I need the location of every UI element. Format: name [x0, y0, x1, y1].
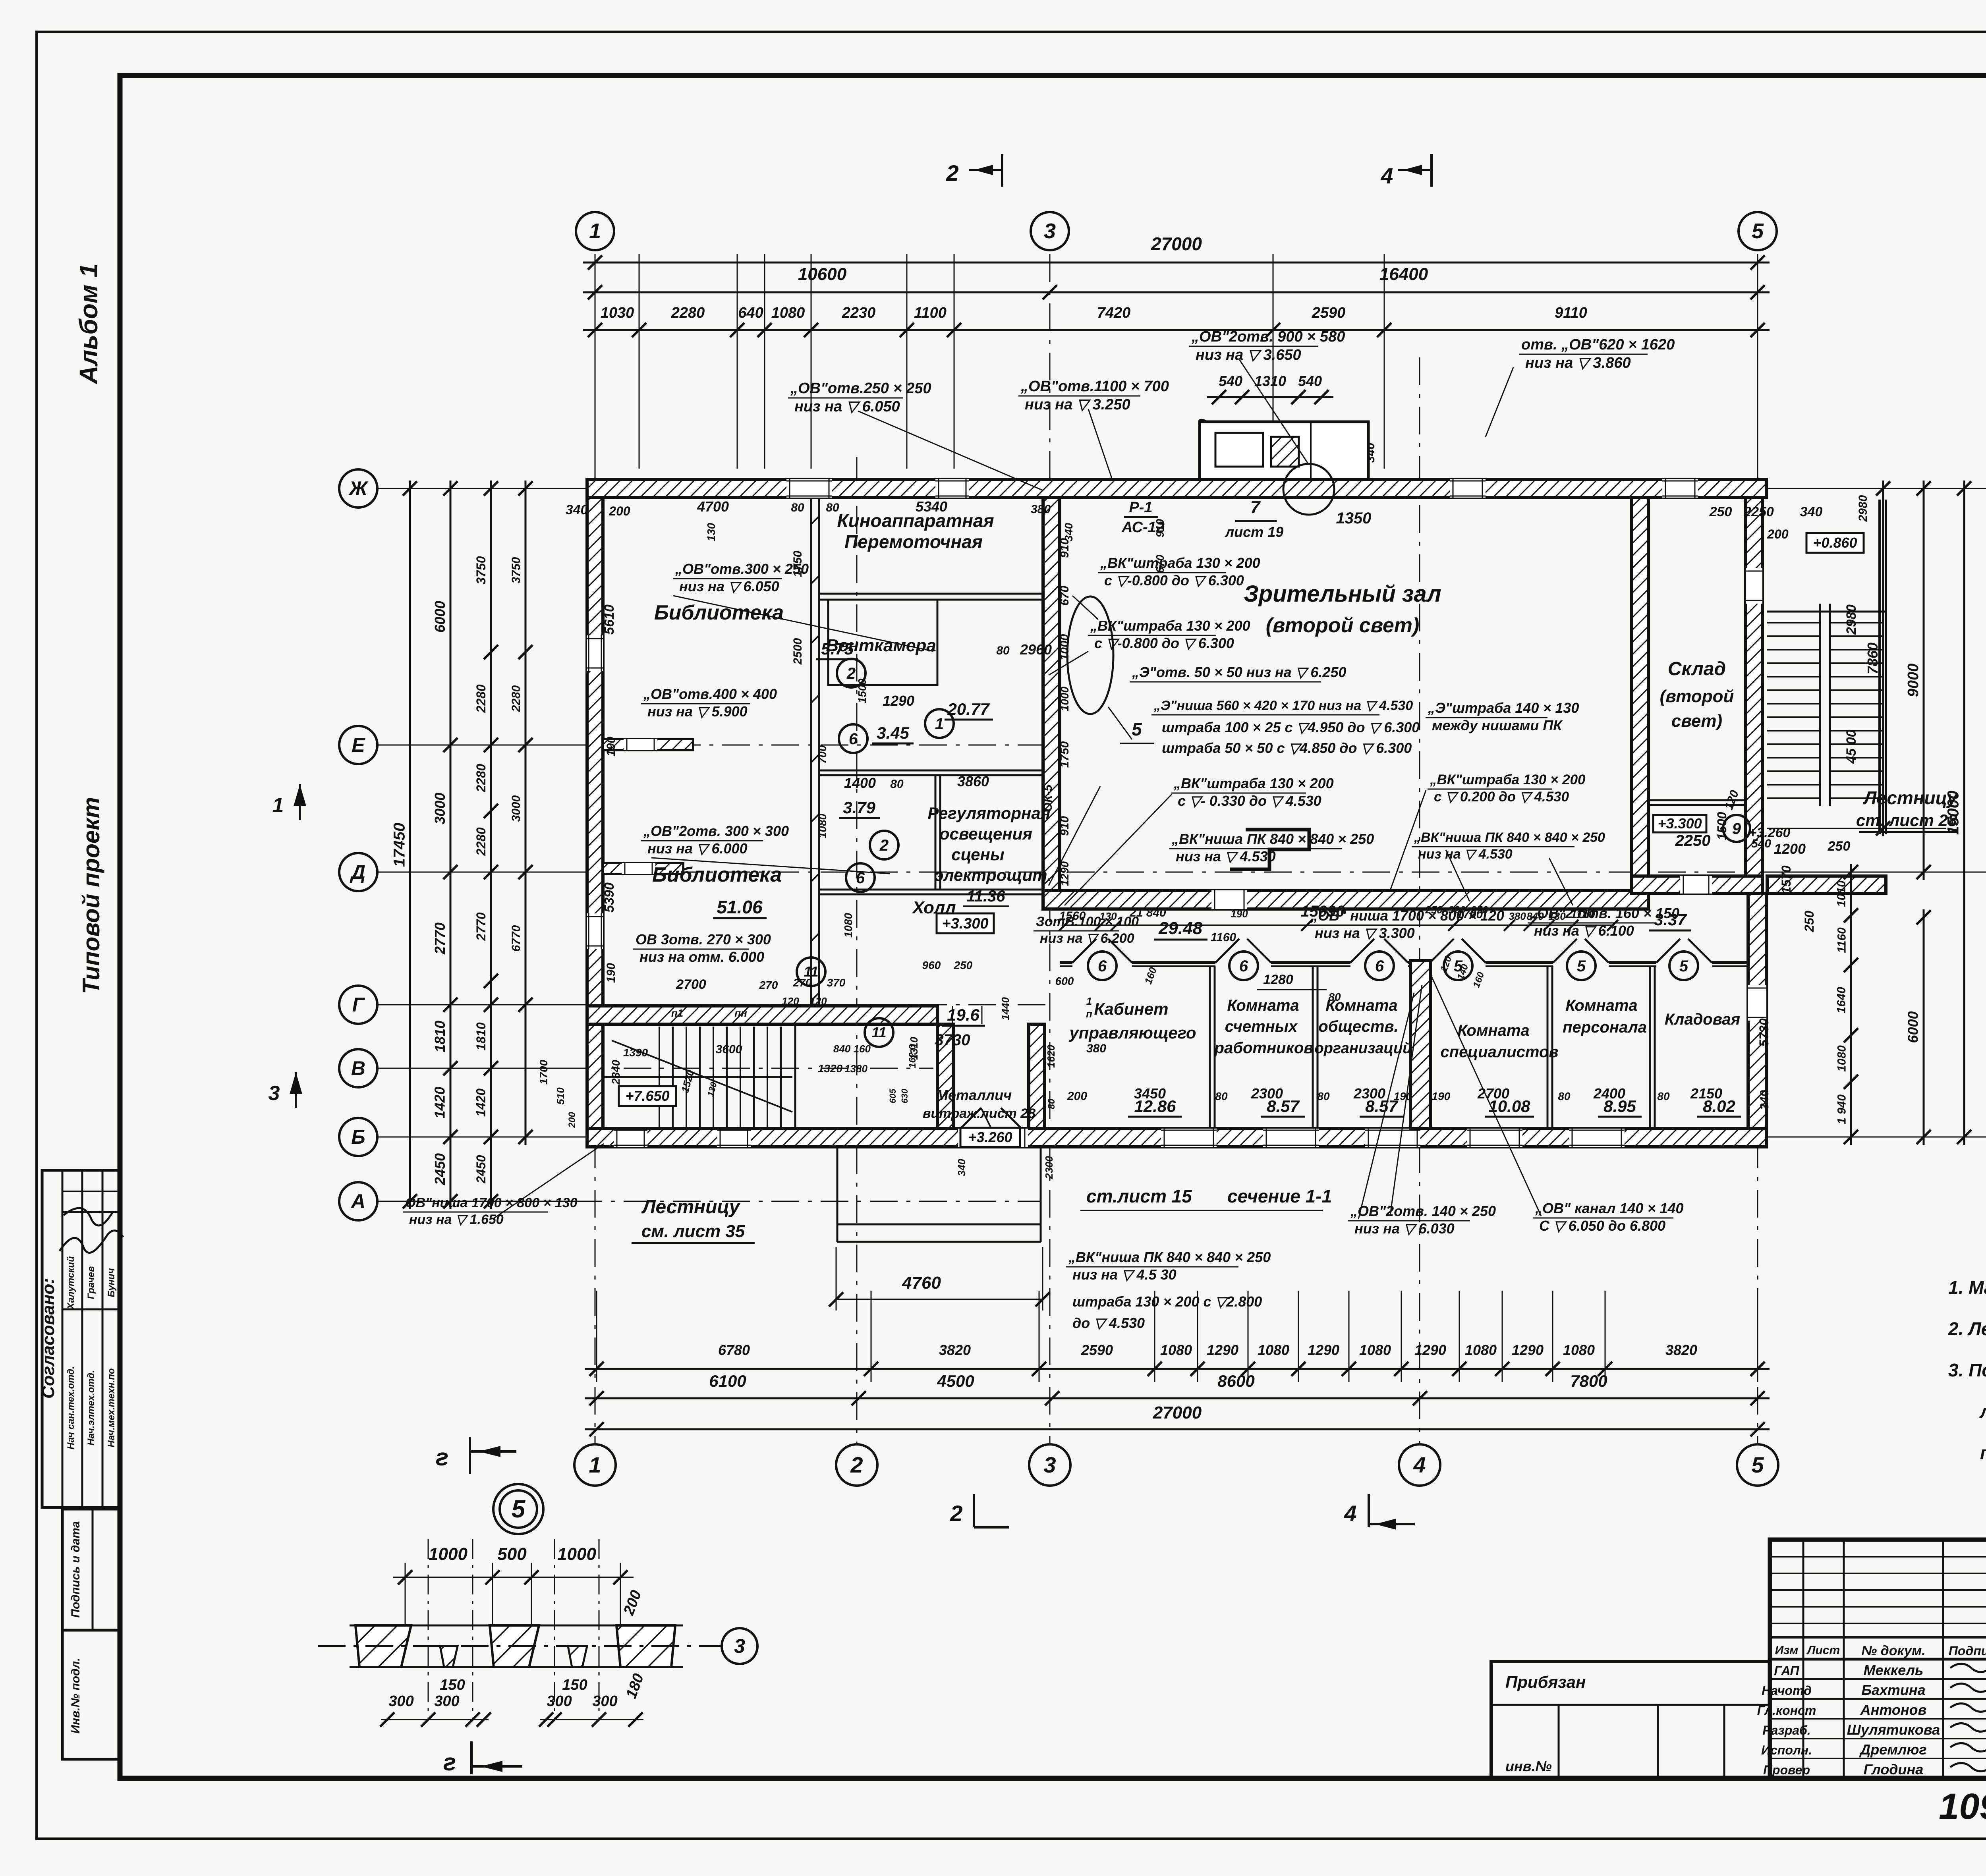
right dim col 9000	[1923, 481, 1925, 880]
svg-text:20.77: 20.77	[947, 700, 990, 718]
svg-text:5.75: 5.75	[821, 639, 854, 658]
svg-text:45 00: 45 00	[1844, 730, 1859, 764]
right exterior wall (axis 5) upper	[1746, 498, 1762, 886]
svg-text:3820: 3820	[1665, 1342, 1697, 1358]
svg-text:2980: 2980	[1857, 495, 1870, 522]
svg-text:1080: 1080	[816, 813, 829, 838]
detail pier 2	[490, 1625, 539, 1667]
svg-text:Лестницу: Лестницу	[1863, 787, 1958, 808]
vestibule west wall	[937, 1024, 953, 1129]
svg-text:1750: 1750	[791, 550, 804, 577]
svg-text:7: 7	[1250, 498, 1261, 517]
svg-text:340: 340	[1758, 1090, 1771, 1110]
svg-text:2980: 2980	[1844, 604, 1859, 635]
svg-text:300: 300	[388, 1693, 413, 1710]
svg-text:540: 540	[1751, 837, 1771, 850]
svg-text:Лист: Лист	[1806, 1644, 1840, 1657]
svg-text:1810: 1810	[474, 1022, 488, 1050]
svg-text:29.48: 29.48	[1158, 919, 1203, 938]
svg-text:3750: 3750	[510, 557, 523, 583]
svg-text:Бунич: Бунич	[106, 1268, 117, 1297]
svg-text:190: 190	[1231, 908, 1248, 920]
detail axis dashed verticals	[428, 1539, 429, 1720]
svg-text:Дремлюг: Дремлюг	[1859, 1741, 1926, 1758]
svg-text:270: 270	[759, 979, 778, 991]
detail wall strip	[350, 1625, 683, 1627]
svg-text:Подпись и дата: Подпись и дата	[69, 1521, 82, 1617]
svg-text:+0.860: +0.860	[1813, 535, 1857, 551]
svg-text:Комната: Комната	[1227, 997, 1299, 1014]
svg-text:электрощит.: электрощит.	[934, 866, 1051, 884]
svg-text:„ОВ"отв.250 × 250: „ОВ"отв.250 × 250	[790, 380, 931, 397]
svg-text:Инв.№ подл.: Инв.№ подл.	[69, 1658, 82, 1733]
svg-text:80: 80	[1657, 1090, 1670, 1102]
svg-text:Комната: Комната	[1565, 997, 1637, 1014]
svg-text:1390: 1390	[623, 1046, 648, 1059]
projection room south wall	[819, 593, 1043, 595]
svg-text:организаций: организаций	[1315, 1040, 1412, 1057]
svg-text:5: 5	[1679, 957, 1688, 975]
svg-text:3820: 3820	[939, 1342, 971, 1358]
svg-text:Кабинет: Кабинет	[1094, 1000, 1169, 1018]
svg-text:персонала: персонала	[1563, 1019, 1647, 1036]
svg-text:низ на отм. 6.000: низ на отм. 6.000	[639, 949, 764, 965]
svg-text:+3.260: +3.260	[968, 1129, 1012, 1145]
bottom dim row 27000	[585, 1428, 1770, 1430]
top grid circles 1 3 5	[576, 212, 614, 250]
svg-text:2250: 2250	[1743, 504, 1774, 519]
svg-text:низ на ▽ 5.900: низ на ▽ 5.900	[647, 703, 748, 720]
svg-text:1640: 1640	[1835, 987, 1848, 1013]
svg-text:штраба 50 × 50 с ▽4.850 до ▽ 6: штраба 50 × 50 с ▽4.850 до ▽ 6.300	[1162, 740, 1412, 756]
svg-text:2450: 2450	[432, 1153, 448, 1185]
svg-text:1160: 1160	[1835, 927, 1849, 953]
svg-text:500: 500	[497, 1544, 527, 1564]
svg-text:2300: 2300	[1353, 1085, 1385, 1102]
top exterior wall (axis Ж)	[587, 479, 1766, 498]
svg-text:1810: 1810	[432, 1021, 448, 1052]
vent chamber room	[828, 600, 937, 685]
svg-text:250: 250	[1828, 839, 1851, 854]
svg-text:Типовой проект: Типовой проект	[78, 797, 104, 994]
hall lobby wall	[819, 889, 1043, 891]
svg-text:4500: 4500	[937, 1372, 974, 1390]
svg-text:Антонов: Антонов	[1860, 1702, 1927, 1718]
svg-text:8600: 8600	[1217, 1372, 1254, 1390]
svg-text:1080: 1080	[1359, 1342, 1391, 1358]
svg-text:витраж.лист 28: витраж.лист 28	[923, 1106, 1036, 1121]
svg-text:+3.300: +3.300	[1658, 815, 1702, 832]
svg-text:6000: 6000	[432, 601, 448, 633]
svg-text:2770: 2770	[474, 912, 488, 941]
svg-text:162 0: 162 0	[907, 1044, 918, 1068]
svg-text:низ на ▽ 4.5 30: низ на ▽ 4.5 30	[1072, 1266, 1177, 1283]
svg-text:Нач.мех.техн.по: Нач.мех.техн.по	[106, 1368, 117, 1447]
svg-text:5: 5	[1752, 219, 1764, 243]
svg-text:80: 80	[996, 644, 1010, 657]
svg-text:4: 4	[1380, 163, 1393, 188]
svg-text:с ▽-0.800 до ▽ 6.300: с ▽-0.800 до ▽ 6.300	[1094, 635, 1234, 651]
left dim col wall offsets	[525, 481, 527, 1145]
corridor south wall (office fronts)	[1060, 961, 1072, 964]
svg-text:1. Маркировку и конструкцию по: 1. Маркировку и конструкцию полов см лис…	[1948, 1277, 1986, 1298]
svg-text:Нач сан.тех.отд.: Нач сан.тех.отд.	[66, 1366, 76, 1449]
vent shaft dims 540 1310 540	[1207, 396, 1333, 398]
svg-text:Металлич: Металлич	[936, 1087, 1012, 1103]
svg-text:1500: 1500	[1715, 812, 1729, 840]
svg-text:120: 120	[809, 995, 827, 1007]
svg-text:1080: 1080	[1258, 1342, 1289, 1358]
svg-text:1: 1	[272, 794, 284, 817]
plan section mark 1 left	[299, 784, 301, 820]
svg-text:1160: 1160	[1211, 931, 1236, 944]
svg-text:190: 190	[605, 737, 618, 757]
svg-text:340: 340	[566, 502, 588, 517]
svg-text:2590: 2590	[1081, 1342, 1113, 1358]
svg-text:штраба 100 × 25 с ▽4.950 до ▽: штраба 100 × 25 с ▽4.950 до ▽ 6.300	[1162, 719, 1420, 735]
svg-text:200: 200	[567, 1112, 578, 1128]
svg-text:605: 605	[888, 1089, 898, 1103]
svg-text:6: 6	[856, 869, 865, 887]
svg-text:150: 150	[562, 1677, 587, 1693]
svg-text:низ на ▽ 6.200: низ на ▽ 6.200	[1040, 931, 1134, 946]
svg-text:600: 600	[1055, 975, 1074, 987]
svg-text:Склад: Склад	[1668, 658, 1726, 679]
svg-text:работников: работников	[1214, 1039, 1314, 1057]
svg-text:2280: 2280	[474, 684, 488, 713]
svg-text:910: 910	[1058, 538, 1071, 558]
bottom dim row small	[585, 1368, 1770, 1370]
svg-text:штраба 130 × 200 с ▽2.800: штраба 130 × 200 с ▽2.800	[1072, 1293, 1262, 1310]
office door circles	[1088, 952, 1117, 980]
svg-text:120: 120	[782, 995, 799, 1007]
svg-text:340: 340	[1800, 504, 1823, 519]
svg-text:низ на ▽ 3.250: низ на ▽ 3.250	[1025, 396, 1130, 413]
svg-text:2280: 2280	[474, 827, 488, 856]
svg-text:80: 80	[1558, 1090, 1571, 1102]
stair bay bottom wall	[1767, 876, 1886, 894]
svg-text:низ на ▽ 1.650: низ на ▽ 1.650	[409, 1212, 504, 1227]
vent shaft box on top wall	[1200, 422, 1368, 479]
svg-text:ст.лист 15: ст.лист 15	[1086, 1186, 1192, 1206]
detail small pier a	[440, 1646, 458, 1667]
storeroom south wall band	[1632, 876, 1762, 894]
svg-text:630: 630	[900, 1089, 910, 1103]
svg-text:Грачев: Грачев	[86, 1266, 97, 1299]
svg-text:2300: 2300	[1251, 1085, 1283, 1102]
svg-text:1320: 1320	[818, 1062, 843, 1075]
right dim col 7860	[1882, 481, 1884, 836]
svg-text:Глодина: Глодина	[1864, 1761, 1924, 1778]
svg-text:В: В	[351, 1057, 365, 1079]
office centre thick wall	[1410, 961, 1431, 1129]
svg-text:300: 300	[547, 1693, 572, 1710]
svg-text:1290: 1290	[1308, 1342, 1339, 1358]
svg-text:2250: 2250	[1675, 832, 1711, 849]
svg-text:2230: 2230	[842, 305, 876, 321]
detail bubble 7 on vent	[1283, 464, 1334, 515]
svg-text:17450: 17450	[391, 823, 408, 867]
svg-text:низ на ▽ 3.300: низ на ▽ 3.300	[1315, 925, 1415, 941]
svg-text:4: 4	[1344, 1501, 1356, 1526]
svg-text:27000: 27000	[1151, 234, 1202, 254]
svg-text:Изм: Изм	[1775, 1644, 1799, 1657]
svg-text:г: г	[436, 1444, 448, 1471]
svg-text:1200: 1200	[1774, 841, 1806, 857]
svg-text:Нач.элтех.отд.: Нач.элтех.отд.	[86, 1370, 97, 1446]
svg-text:3000: 3000	[510, 795, 523, 822]
hall south wall	[1043, 890, 1648, 909]
svg-text:2: 2	[850, 1452, 863, 1477]
svg-text:380: 380	[1031, 503, 1051, 516]
left exterior wall (axis 1)	[587, 498, 603, 1129]
svg-text:С ▽ 6.050 до 6.800: С ▽ 6.050 до 6.800	[1539, 1218, 1665, 1234]
svg-text:250: 250	[954, 959, 973, 971]
svg-text:540: 540	[1219, 373, 1242, 389]
svg-text:п1: п1	[671, 1007, 683, 1019]
door circles middle	[837, 659, 865, 687]
svg-text:320: 320	[1448, 904, 1466, 916]
svg-text:16400: 16400	[1379, 264, 1428, 284]
svg-text:80: 80	[1328, 991, 1341, 1003]
svg-text:2700: 2700	[1477, 1085, 1509, 1102]
svg-text:сцены: сцены	[951, 845, 1005, 864]
detail axis circle 3	[722, 1628, 757, 1664]
svg-text:200: 200	[1767, 527, 1789, 541]
svg-text:„Э"отв. 50 × 50 низ на ▽ 6.250: „Э"отв. 50 × 50 низ на ▽ 6.250	[1132, 664, 1346, 680]
svg-text:управляющего: управляющего	[1068, 1023, 1196, 1042]
svg-text:670: 670	[1154, 554, 1166, 573]
right exterior wall (axis 5) lower	[1748, 894, 1766, 1129]
svg-text:7860: 7860	[1864, 643, 1881, 674]
svg-text:9000: 9000	[1905, 664, 1922, 697]
svg-text:4: 4	[1413, 1452, 1426, 1477]
svg-text:Р-1: Р-1	[1129, 499, 1152, 516]
svg-text:2770: 2770	[432, 923, 448, 955]
svg-text:670: 670	[1058, 586, 1071, 606]
svg-text:1290: 1290	[883, 693, 914, 709]
vestibule east wall	[1029, 1024, 1045, 1129]
svg-text:6000: 6000	[1905, 1011, 1921, 1043]
svg-text:с ▽ 0.200 до ▽ 4.530: с ▽ 0.200 до ▽ 4.530	[1434, 789, 1569, 805]
entrance door leaves	[957, 1108, 981, 1132]
svg-text:200: 200	[609, 504, 630, 518]
svg-text:с ▽- 0.330 до ▽ 4.530: с ▽- 0.330 до ▽ 4.530	[1178, 793, 1321, 809]
control room walls	[819, 770, 1043, 772]
svg-text:5: 5	[1132, 719, 1142, 739]
svg-text:специалистов: специалистов	[1440, 1043, 1558, 1061]
svg-text:51.06: 51.06	[717, 897, 763, 917]
svg-text:„ВК"штраба 130 × 200: „ВК"штраба 130 × 200	[1173, 775, 1334, 791]
svg-text:250: 250	[1425, 904, 1443, 916]
svg-text:(второй свет): (второй свет)	[1266, 614, 1420, 637]
entrance gap in bottom wall	[958, 1129, 1028, 1147]
svg-text:Библиотека: Библиотека	[652, 863, 782, 886]
svg-text:130: 130	[1548, 910, 1566, 922]
detail pier 1	[355, 1625, 411, 1667]
svg-text:5: 5	[1577, 957, 1586, 975]
svg-text:1000: 1000	[1059, 686, 1071, 711]
svg-text:250: 250	[1709, 504, 1732, 519]
detail pier 3	[616, 1625, 675, 1667]
svg-text:6: 6	[1239, 957, 1248, 975]
svg-text:1080: 1080	[1160, 1342, 1192, 1358]
detail bubble 5 (double circle)	[493, 1484, 543, 1534]
title block signature grid	[1802, 1540, 1804, 1778]
svg-text:15000: 15000	[1945, 791, 1962, 835]
bottom dim row majors	[585, 1397, 1770, 1399]
svg-text:130: 130	[1099, 910, 1117, 922]
svg-text:Бахтина: Бахтина	[1861, 1682, 1925, 1698]
svg-text:„ОВ"отв.400 × 400: „ОВ"отв.400 × 400	[643, 686, 777, 702]
sidebar box Подпись и дата	[62, 1509, 120, 1630]
svg-text:4760: 4760	[902, 1273, 941, 1293]
svg-text:2280: 2280	[671, 305, 705, 321]
svg-text:2700: 2700	[676, 977, 706, 992]
svg-text:„ОВ"2отв. 300 × 300: „ОВ"2отв. 300 × 300	[643, 823, 789, 839]
svg-text:2400: 2400	[1593, 1085, 1625, 1102]
right dim col minors	[1850, 864, 1852, 1145]
svg-text:700: 700	[816, 745, 829, 764]
svg-text:1420: 1420	[432, 1087, 448, 1118]
svg-text:840 160: 840 160	[833, 1043, 871, 1055]
svg-text:1 940: 1 940	[1835, 1094, 1849, 1124]
svg-text:3.45: 3.45	[877, 724, 909, 742]
svg-text:380: 380	[1086, 1042, 1106, 1055]
right extension lines	[1772, 488, 1986, 489]
svg-text:6: 6	[1375, 957, 1384, 975]
svg-text:1000: 1000	[1058, 634, 1071, 660]
svg-text:2. Лестницы см. лист 28,35: 2. Лестницы см. лист 28,35	[1948, 1318, 1986, 1339]
svg-text:1700: 1700	[537, 1060, 550, 1085]
svg-text:1: 1	[589, 219, 601, 243]
svg-text:3000: 3000	[432, 793, 448, 824]
svg-text:510: 510	[554, 1087, 566, 1105]
library partition stub at axis Д	[603, 863, 683, 874]
svg-text:370: 370	[827, 977, 846, 989]
top dimension row 10600 16400	[583, 291, 1770, 293]
svg-text:1560: 1560	[1059, 909, 1086, 923]
left grid circles Ж Е Д Г В Б А	[339, 469, 377, 508]
svg-text:5: 5	[512, 1496, 526, 1523]
svg-text:1: 1	[589, 1452, 601, 1477]
svg-text:1099-01: 1099-01	[1939, 1786, 1986, 1827]
svg-text:1440: 1440	[999, 997, 1011, 1020]
svg-text:сечение 1-1: сечение 1-1	[1227, 1186, 1332, 1206]
svg-text:3. Под окнами в библиотеке, ко: 3. Под окнами в библиотеке, коридоре и н…	[1948, 1360, 1986, 1380]
detail centerline	[318, 1645, 721, 1647]
svg-text:5730: 5730	[1757, 1018, 1771, 1046]
svg-text:лист 19: лист 19	[1225, 524, 1283, 540]
svg-text:приборов(ст.сеч. а-а) лист ли: приборов(ст.сеч. а-а) лист лист 9	[1980, 1442, 1986, 1463]
svg-text:80: 80	[1046, 1098, 1057, 1109]
svg-text:Халутский: Халутский	[66, 1256, 76, 1310]
svg-text:960: 960	[922, 959, 941, 971]
svg-text:Прибязан: Прибязан	[1505, 1673, 1586, 1691]
svg-text:1620: 1620	[1045, 1045, 1057, 1068]
svg-text:„ВК"штраба 130 × 200: „ВК"штраба 130 × 200	[1100, 555, 1260, 571]
svg-text:низ на ▽ 4.530: низ на ▽ 4.530	[1418, 847, 1513, 862]
top dimension row 27000	[583, 262, 1770, 264]
svg-text:Библиотека: Библиотека	[654, 601, 784, 624]
svg-text:5610: 5610	[602, 604, 617, 635]
svg-text:ОК-5: ОК-5	[1041, 784, 1055, 812]
svg-text:2840: 2840	[610, 1060, 622, 1085]
svg-text:2: 2	[879, 837, 889, 854]
office partition walls	[1209, 966, 1211, 1129]
svg-text:пн: пн	[734, 1007, 747, 1019]
svg-text:1290: 1290	[1059, 861, 1071, 886]
plan section mark 3 left	[295, 1072, 297, 1108]
svg-text:2450: 2450	[474, 1155, 488, 1183]
svg-text:3.79: 3.79	[843, 798, 875, 817]
svg-text:190: 190	[1432, 1090, 1451, 1102]
stair level box +7.650	[619, 1086, 676, 1106]
svg-text:„ВК"ниша ПК 840 × 840 × 250: „ВК"ниша ПК 840 × 840 × 250	[1414, 830, 1605, 845]
svg-text:между нишами ПК: между нишами ПК	[1432, 717, 1563, 733]
leaders hall	[1072, 596, 1098, 620]
svg-text:низ на ▽ 6.050: низ на ▽ 6.050	[679, 578, 779, 594]
svg-text:3860: 3860	[957, 773, 989, 789]
svg-text:„Э"ниша 560 × 420 × 170 низ на: „Э"ниша 560 × 420 × 170 низ на ▽ 4.530	[1153, 698, 1413, 713]
svg-text:Комната: Комната	[1457, 1022, 1529, 1039]
svg-text:840: 840	[1526, 910, 1544, 922]
svg-text:2: 2	[950, 1501, 962, 1526]
left extension lines	[401, 488, 587, 489]
svg-text:см. лист 35: см. лист 35	[641, 1222, 745, 1241]
svg-text:освещения: освещения	[939, 824, 1032, 843]
grid axis horizontal lines	[377, 488, 1986, 489]
svg-text:200: 200	[1067, 1090, 1087, 1103]
svg-text:2960: 2960	[1020, 641, 1052, 658]
svg-text:Шулятикова: Шулятикова	[1847, 1722, 1940, 1738]
level box +3.300 lobby	[937, 913, 994, 933]
svg-text:27000: 27000	[1153, 1403, 1202, 1422]
svg-text:10600: 10600	[798, 264, 847, 284]
svg-text:Е: Е	[352, 734, 365, 756]
svg-text:2590: 2590	[1312, 305, 1346, 321]
svg-text:„Э"штраба 140 × 130: „Э"штраба 140 × 130	[1428, 700, 1579, 716]
svg-text:4700: 4700	[697, 498, 729, 515]
svg-text:6780: 6780	[718, 1342, 750, 1358]
sidebar box Инв № подл	[62, 1630, 120, 1759]
svg-text:340: 340	[956, 1159, 968, 1176]
left dim col minors	[490, 481, 492, 1209]
approval table Согласовано	[42, 1170, 120, 1507]
hall west wall (axis 3)	[1043, 498, 1060, 890]
svg-text:отв. „ОВ"620 × 1620: отв. „ОВ"620 × 1620	[1521, 336, 1675, 353]
svg-text:910: 910	[1058, 816, 1071, 836]
svg-text:1: 1	[1086, 995, 1092, 1007]
svg-text:Перемоточная: Перемоточная	[844, 531, 983, 552]
svg-text:низ на ▽ 6.000: низ на ▽ 6.000	[647, 840, 748, 857]
svg-text:1280: 1280	[1263, 972, 1293, 987]
svg-text:1010: 1010	[1835, 880, 1848, 907]
svg-text:80: 80	[890, 778, 904, 791]
grid axis vertical lines	[595, 254, 596, 1443]
svg-text:11.36: 11.36	[966, 888, 1005, 905]
svg-text:лестнице предусмотреть ниши дл: лестнице предусмотреть ниши для отопител…	[1979, 1401, 1986, 1422]
svg-text:+3.300: +3.300	[942, 915, 988, 932]
detail ellipse 5 on hall west wall	[1067, 596, 1113, 714]
svg-text:+7.650: +7.650	[625, 1088, 669, 1104]
hall step symbol	[1230, 830, 1309, 869]
title block frame	[1770, 1540, 1986, 1778]
detail small pier b	[568, 1646, 587, 1667]
svg-text:250: 250	[1470, 904, 1488, 916]
svg-text:1350: 1350	[1336, 510, 1372, 527]
svg-text:3600: 3600	[716, 1043, 742, 1056]
